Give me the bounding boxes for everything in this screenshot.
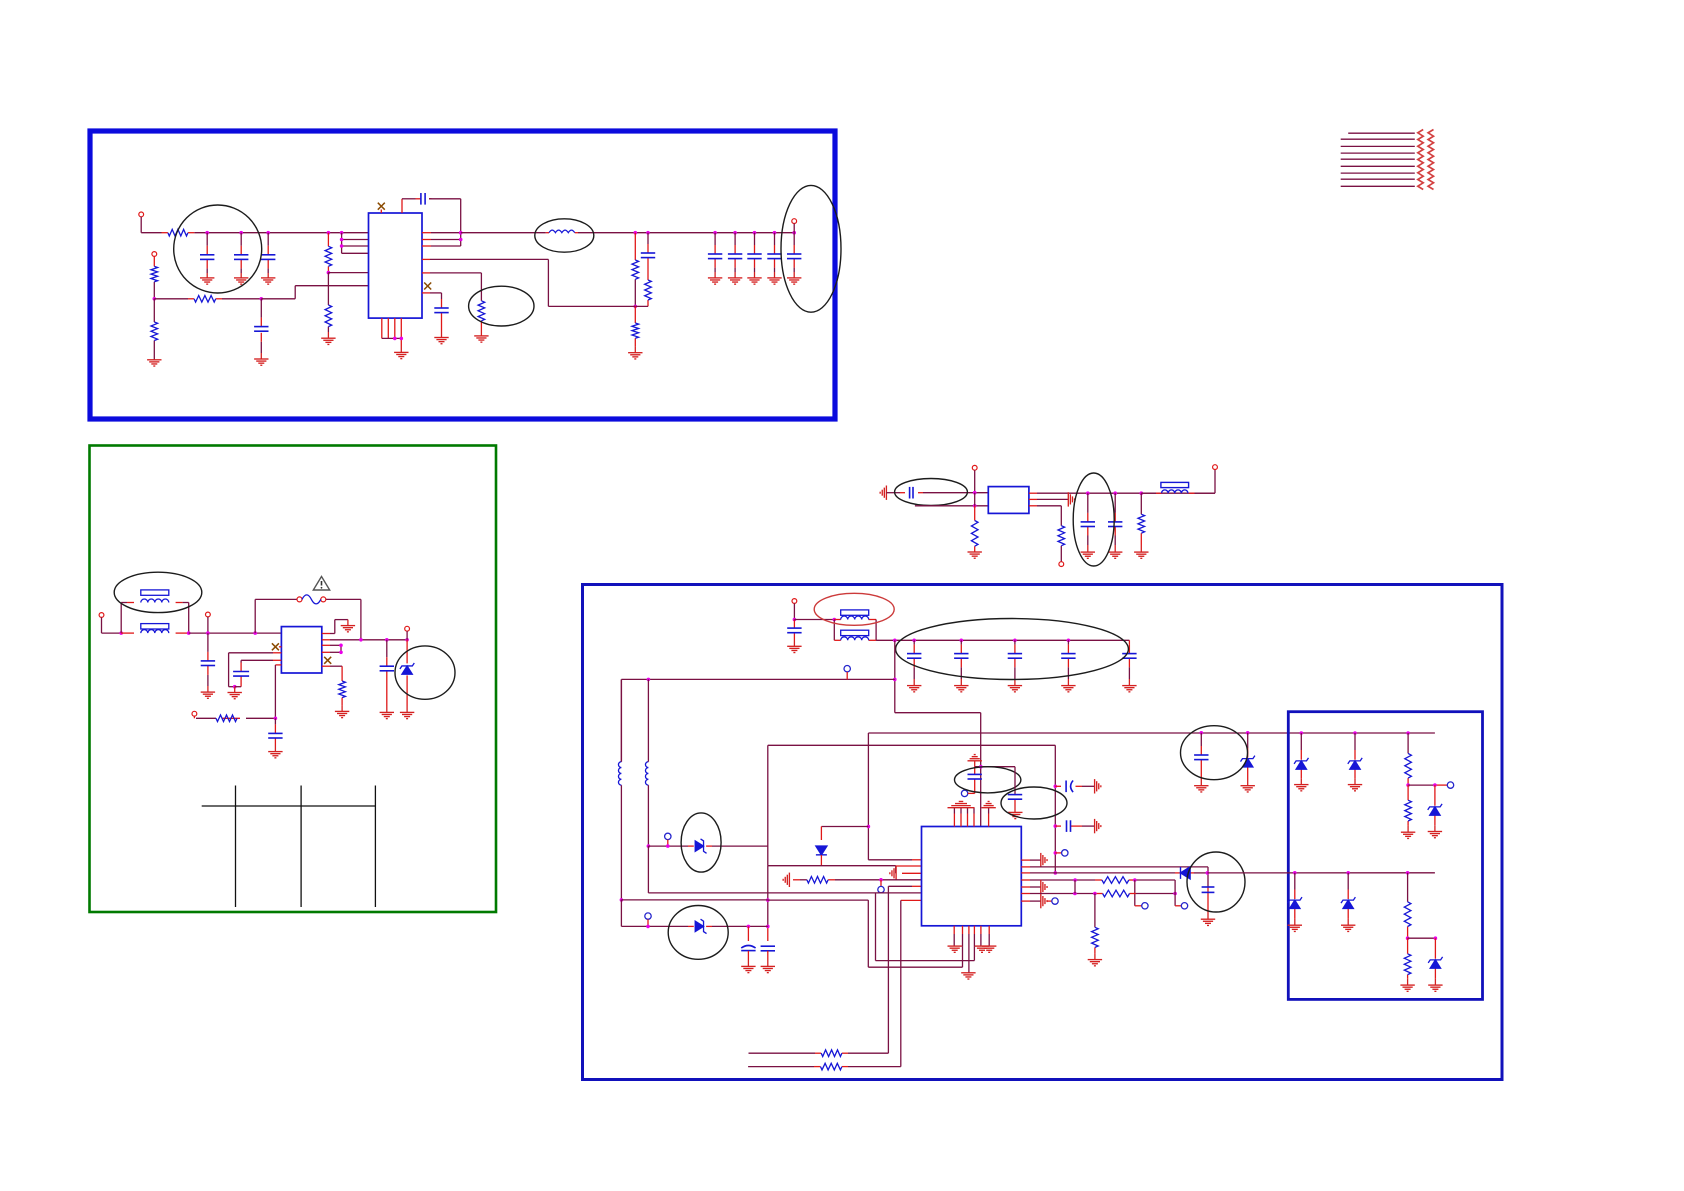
wire pin4 extension	[973, 946, 975, 961]
wire C29 branch	[1055, 825, 1061, 827]
chassis ground U3	[1068, 492, 1074, 506]
test point TP9	[645, 913, 651, 919]
capacitor C24	[1061, 654, 1075, 659]
junction	[1067, 639, 1071, 643]
wire P4 drop	[101, 617, 103, 633]
wire C27 leads	[1014, 767, 1016, 795]
junction	[1054, 824, 1058, 828]
wire output cap C10 leads	[754, 233, 756, 245]
junction	[1293, 871, 1297, 875]
highlight circle C33 D12	[1181, 726, 1248, 780]
wire U4 row y901 gnd	[1021, 900, 1030, 902]
wire R5 leads	[327, 233, 329, 247]
wire bulk cap C22 leads	[960, 640, 962, 644]
transformer T2 winding B	[841, 630, 869, 635]
junction	[753, 231, 757, 235]
wire R17 down to TP6	[1134, 880, 1136, 906]
ground	[1088, 960, 1102, 966]
resistor R2	[151, 266, 158, 281]
ground	[787, 278, 801, 284]
wire filter input	[886, 492, 900, 494]
chassis ground U4 left	[890, 866, 896, 880]
wire fuse loop	[254, 599, 256, 633]
wire bead leads	[1141, 492, 1156, 494]
junction	[1073, 878, 1077, 882]
ground	[787, 646, 801, 652]
wire TP2 stub	[667, 840, 669, 847]
capacitor C19	[1108, 522, 1122, 527]
junction	[400, 337, 404, 341]
highlight red ellipse T2	[814, 593, 894, 625]
junction	[833, 618, 837, 622]
ground	[380, 712, 394, 718]
resistor R23	[1405, 800, 1412, 821]
ground	[400, 712, 414, 718]
junction	[393, 337, 397, 341]
wire bus6 y900	[621, 899, 767, 901]
wire R9 leads	[634, 306, 636, 323]
junction	[867, 825, 871, 829]
terminal P7	[405, 626, 410, 631]
capacitor C7	[434, 308, 448, 313]
junction	[340, 238, 344, 242]
junction	[239, 231, 243, 235]
no-connect X	[378, 203, 385, 210]
wire pin row y272	[328, 272, 368, 274]
wire TP3 stub	[880, 880, 882, 887]
LED driver block border (blue)	[1288, 712, 1482, 1000]
junction	[646, 231, 650, 235]
wire TP1 stub	[846, 672, 848, 680]
ground	[1428, 832, 1442, 838]
junction	[187, 631, 191, 635]
terminal P8	[972, 465, 977, 470]
wire U4 top pin stubs	[953, 808, 955, 814]
zener diode D1	[400, 663, 414, 674]
wire R23 leads	[1407, 785, 1409, 800]
junction	[634, 305, 638, 309]
wire tie y880-y893	[1074, 880, 1076, 894]
ground	[1288, 925, 1302, 931]
wire net B+ vertical	[894, 640, 896, 712]
wire bulk cap C23 leads	[1014, 640, 1016, 644]
wire LED D10 leads	[1347, 873, 1349, 890]
junction	[1054, 851, 1058, 855]
capacitor C13	[201, 661, 215, 666]
ground	[968, 552, 982, 558]
junction	[979, 765, 983, 769]
junction	[766, 925, 770, 929]
capacitor C33	[1194, 755, 1208, 760]
wire cap C2 leads	[240, 233, 242, 246]
capacitor C10	[747, 254, 761, 259]
ground	[628, 353, 642, 359]
wire bus y733	[868, 732, 1435, 734]
zener diode D9	[1288, 897, 1302, 908]
wire cap C1 leads	[206, 233, 208, 246]
highlight ellipse T1	[114, 572, 202, 612]
resistor R14	[1058, 526, 1065, 546]
wire P8 drop	[974, 470, 976, 493]
wire C13 leads	[207, 633, 209, 652]
wire L3 leads	[647, 679, 649, 761]
junction	[1434, 936, 1438, 940]
wire zener D5 row	[620, 900, 622, 927]
resistor R11	[216, 715, 237, 722]
highlight ellipse C27	[1001, 787, 1067, 819]
capacitor C2	[234, 255, 248, 260]
wire R16 row y880	[793, 879, 800, 881]
ground	[761, 966, 775, 972]
junction	[960, 639, 964, 643]
junction	[1353, 731, 1357, 735]
wire pin6 to C7	[422, 292, 430, 294]
chassis ground R16	[783, 873, 789, 887]
junction	[359, 638, 363, 642]
junction	[713, 231, 717, 235]
main converter block border (blue)	[583, 585, 1503, 1080]
wire C6+R8 column	[647, 233, 649, 244]
junction	[233, 685, 237, 689]
capacitor C26	[968, 774, 982, 779]
junction	[1406, 936, 1410, 940]
wire bus to output	[461, 232, 546, 234]
junction	[1346, 871, 1350, 875]
capacitor C25	[1122, 654, 1136, 659]
terminal P4	[99, 613, 104, 618]
test point TP4	[961, 790, 967, 796]
wire D2 top wire	[821, 826, 868, 828]
wire R13 leads	[974, 493, 976, 506]
capacitor C22	[954, 654, 968, 659]
capacitor C16	[380, 666, 394, 671]
ground	[228, 693, 242, 699]
ground (inverted) U4 top right	[981, 801, 995, 807]
resistor R22	[1405, 753, 1412, 778]
wire U2 right gnd jog	[322, 633, 330, 635]
wire C28 branch	[1055, 785, 1061, 787]
wire U4 row y880	[1021, 879, 1030, 881]
junction	[666, 844, 670, 848]
wire choke loop	[120, 603, 122, 634]
resistor R18	[1103, 890, 1130, 897]
wire LED D9 leads	[1294, 873, 1296, 890]
test point TP1	[844, 666, 850, 672]
wire T2 winding B stubs	[834, 639, 841, 641]
junction	[792, 231, 796, 235]
ground	[335, 711, 349, 717]
resistor R17	[1102, 877, 1129, 884]
junction	[459, 238, 463, 242]
capacitor C23	[1008, 654, 1022, 659]
wire LED D6 leads	[1300, 733, 1302, 750]
wire to choke T2	[794, 619, 834, 621]
terminal P3 output	[792, 219, 797, 224]
resistor R12	[339, 681, 346, 698]
zener diode D11	[1428, 957, 1442, 968]
wire U2 pin stub x	[279, 646, 282, 648]
ground U4 bottom B1	[975, 946, 989, 952]
junction	[1300, 731, 1304, 735]
capacitor C31 (polarized)	[741, 946, 755, 951]
junction	[747, 925, 751, 929]
terminal P10	[1213, 465, 1218, 470]
wire U1 top pin stub	[380, 210, 382, 214]
wire row y785	[1408, 784, 1435, 786]
wire feedback loop	[401, 199, 403, 213]
ground U4 bottom B2	[982, 946, 996, 952]
wire C18 leads	[1087, 493, 1089, 513]
chassis ground input	[880, 486, 886, 500]
wire pin jog bundle	[341, 233, 343, 254]
capacitor C17 series	[910, 487, 913, 499]
resistor R15	[1138, 514, 1145, 533]
ground	[1081, 552, 1095, 558]
highlight circle input caps	[174, 205, 262, 293]
wire zener D1 leads	[406, 631, 408, 640]
ground	[907, 686, 921, 692]
resistor R20	[821, 1050, 842, 1057]
highlight circle D1	[395, 646, 455, 699]
wire R6 leads	[327, 273, 329, 305]
wire U3 out row1	[1029, 492, 1037, 494]
junction	[260, 297, 264, 301]
junction	[1406, 871, 1410, 875]
junction	[1013, 639, 1017, 643]
junction	[793, 618, 797, 622]
wire output cap C9 leads	[734, 233, 736, 245]
wire TP5 stub	[1055, 852, 1061, 854]
wire row y306	[548, 305, 648, 307]
capacitor C18	[1081, 522, 1095, 527]
ground	[1348, 785, 1362, 791]
zener diode D3	[695, 839, 706, 853]
junction	[119, 631, 123, 635]
junction	[1054, 871, 1058, 875]
ground	[708, 278, 722, 284]
inductor L1	[549, 230, 575, 233]
junction	[733, 231, 737, 235]
capacitor C27	[1008, 795, 1022, 800]
junction	[1073, 892, 1077, 896]
junction	[253, 631, 257, 635]
junction	[1206, 871, 1210, 875]
junction	[1140, 491, 1144, 495]
wire filter return	[915, 505, 988, 507]
resistor R6	[325, 305, 332, 327]
ground	[1341, 925, 1355, 931]
ground	[1008, 686, 1022, 692]
zener diode D5	[695, 919, 706, 933]
junction	[339, 644, 343, 648]
resistor R16	[807, 877, 828, 884]
ground	[767, 278, 781, 284]
ground	[200, 278, 214, 284]
resistor R10	[478, 301, 485, 321]
capacitor C11	[767, 254, 781, 259]
wire LED row 2	[1207, 872, 1435, 874]
capacitor C12	[787, 254, 801, 259]
resistor R21	[821, 1063, 842, 1070]
wire R2 leads	[153, 256, 155, 266]
wire U2 row y660.3 to C14	[273, 659, 281, 661]
wire output cap C8 leads	[714, 233, 716, 245]
junction	[339, 651, 343, 655]
ground	[147, 360, 161, 366]
IC U2 standby regulator	[281, 627, 321, 673]
junction	[1433, 783, 1437, 787]
wire P11 drop	[793, 603, 795, 619]
junction	[973, 504, 977, 508]
junction	[1113, 491, 1117, 495]
resistor R5	[325, 246, 332, 266]
test point TP3	[878, 886, 884, 892]
junction	[646, 925, 650, 929]
capacitor C32	[761, 946, 775, 951]
wire snubber vertical x768	[767, 745, 769, 865]
highlight circle D4	[1187, 852, 1245, 912]
wire C31 leads	[747, 926, 749, 941]
ground	[954, 686, 968, 692]
junction	[620, 898, 624, 902]
ground	[1294, 785, 1308, 791]
wire D4 node cap C30	[1207, 887, 1209, 892]
wire U4 gnd row y873	[902, 872, 922, 874]
highlight ellipse output	[781, 185, 841, 312]
resistor R8	[645, 280, 652, 300]
wire pin5 to R10	[422, 272, 430, 274]
terminal P9	[1059, 562, 1064, 567]
test point TP6	[1142, 903, 1148, 909]
diode D2	[816, 846, 827, 855]
wire R7 leads	[634, 233, 636, 260]
junction	[1173, 892, 1177, 896]
ground	[234, 278, 248, 284]
wire row y938	[1408, 937, 1436, 939]
chassis ground U4 r7	[1041, 894, 1047, 908]
chassis ground U4 r5	[1041, 880, 1047, 894]
wire row y299	[154, 298, 188, 300]
wire bulk cap C24 leads	[1067, 640, 1069, 644]
junction	[340, 231, 344, 235]
highlight ellipse C26	[955, 767, 1021, 793]
zener diode D10	[1341, 897, 1355, 908]
inductor L2	[618, 762, 621, 786]
ground	[434, 338, 448, 344]
highlight ellipse C17	[895, 479, 968, 506]
capacitor C8	[708, 254, 722, 259]
capacitor C6	[641, 253, 655, 258]
junction	[1133, 878, 1137, 882]
ground	[728, 278, 742, 284]
capacitor C20	[787, 628, 801, 633]
wire R25 leads	[1407, 938, 1409, 954]
junction	[647, 844, 651, 848]
junction	[327, 271, 331, 275]
wire output cap C12 leads	[793, 233, 795, 245]
wire U4 row y886 to bottom row1	[888, 885, 912, 887]
capacitor C4	[254, 327, 268, 332]
ground	[747, 278, 761, 284]
test point TP10	[1447, 782, 1453, 788]
highlight circle D5	[668, 906, 728, 960]
ground	[268, 752, 282, 758]
wire U2 tie rows	[322, 644, 330, 646]
wire U4 row y900 to bottom row2	[901, 899, 922, 901]
wire pin2 extension	[962, 946, 964, 967]
ground (wide inverted) U4 top	[948, 801, 975, 807]
ground	[254, 359, 268, 365]
junction	[405, 638, 409, 642]
junction	[879, 878, 883, 882]
capacitor C21	[907, 654, 921, 659]
junction	[274, 717, 278, 721]
capacitor C15	[268, 733, 282, 738]
standby supply block border (green)	[90, 446, 497, 913]
wire green bus	[189, 632, 282, 634]
warning triangle	[313, 577, 329, 591]
wire bus y745	[768, 744, 1056, 746]
zener diode D7	[1348, 758, 1362, 769]
transformer T1 winding A	[141, 590, 169, 595]
resistor R7	[632, 260, 639, 279]
ground	[1401, 832, 1415, 838]
junction	[766, 898, 770, 902]
wire long bus y679	[621, 678, 894, 680]
wire D8 leads	[1434, 785, 1436, 806]
wire D11 leads	[1434, 938, 1436, 959]
no-connect X	[324, 657, 331, 664]
diode D4	[1181, 867, 1191, 879]
wire U4 row y887 gnd	[1021, 886, 1030, 888]
wire U2 output row	[322, 639, 330, 641]
ground	[1194, 786, 1208, 792]
zener diode D12	[1241, 756, 1255, 767]
wire U4 row y860 gnd	[1021, 859, 1030, 861]
junction	[327, 231, 331, 235]
wire down to TP7	[1174, 880, 1176, 906]
test point TP7	[1181, 903, 1187, 909]
IC U3 filter	[988, 487, 1029, 514]
capacitor C3	[261, 255, 275, 260]
wire P5 drop	[207, 617, 209, 633]
wire bottom row1	[749, 1052, 816, 1054]
wire L2 leads	[620, 679, 622, 761]
ground U4 bottom A	[948, 946, 962, 952]
ground	[1400, 985, 1414, 991]
wire bottom row2	[748, 1066, 814, 1068]
wire harness bundle	[1341, 133, 1415, 186]
junction	[205, 231, 209, 235]
highlight ellipse L1	[535, 219, 594, 252]
table grid lines	[202, 786, 376, 908]
junction	[1086, 491, 1090, 495]
chassis ground C29	[1095, 819, 1101, 833]
resistor R25	[1404, 954, 1411, 975]
wire C20 leads	[793, 620, 795, 629]
wire TP9 stub	[647, 919, 649, 926]
junction	[647, 678, 651, 682]
capacitor C9	[728, 254, 742, 259]
resistor R1	[168, 229, 188, 236]
wire T2 winding A loop	[834, 619, 841, 621]
ground	[261, 278, 275, 284]
resistor R13	[971, 521, 978, 547]
wire LED D7 leads	[1354, 733, 1356, 750]
IC U4 main controller	[922, 827, 1022, 926]
chassis ground C28	[1095, 779, 1101, 793]
resistor R4	[151, 322, 158, 341]
